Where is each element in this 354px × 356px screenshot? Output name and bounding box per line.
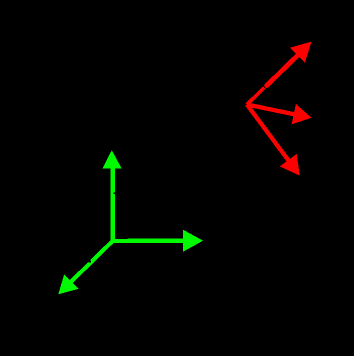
red arrow up-right: head [290, 42, 311, 63]
notch on green Z axis shaft [89, 261, 91, 263]
red arrow up-right: lower shaft segment [247, 88, 264, 105]
notch on green Y axis shaft [113, 192, 115, 194]
green frame axis X (right arrow) [111, 230, 203, 252]
red arrow right [247, 104, 312, 125]
green frame axis Y (up arrow) [102, 150, 121, 241]
red arrow up-right: upper shaft segment (thicker, rounded start) [267, 56, 298, 86]
red arrow down-right [247, 105, 300, 176]
green frame axis Z (down-left arrow) [58, 241, 112, 294]
small bite notch on bottom edge of red up-right shaft [276, 79, 278, 81]
